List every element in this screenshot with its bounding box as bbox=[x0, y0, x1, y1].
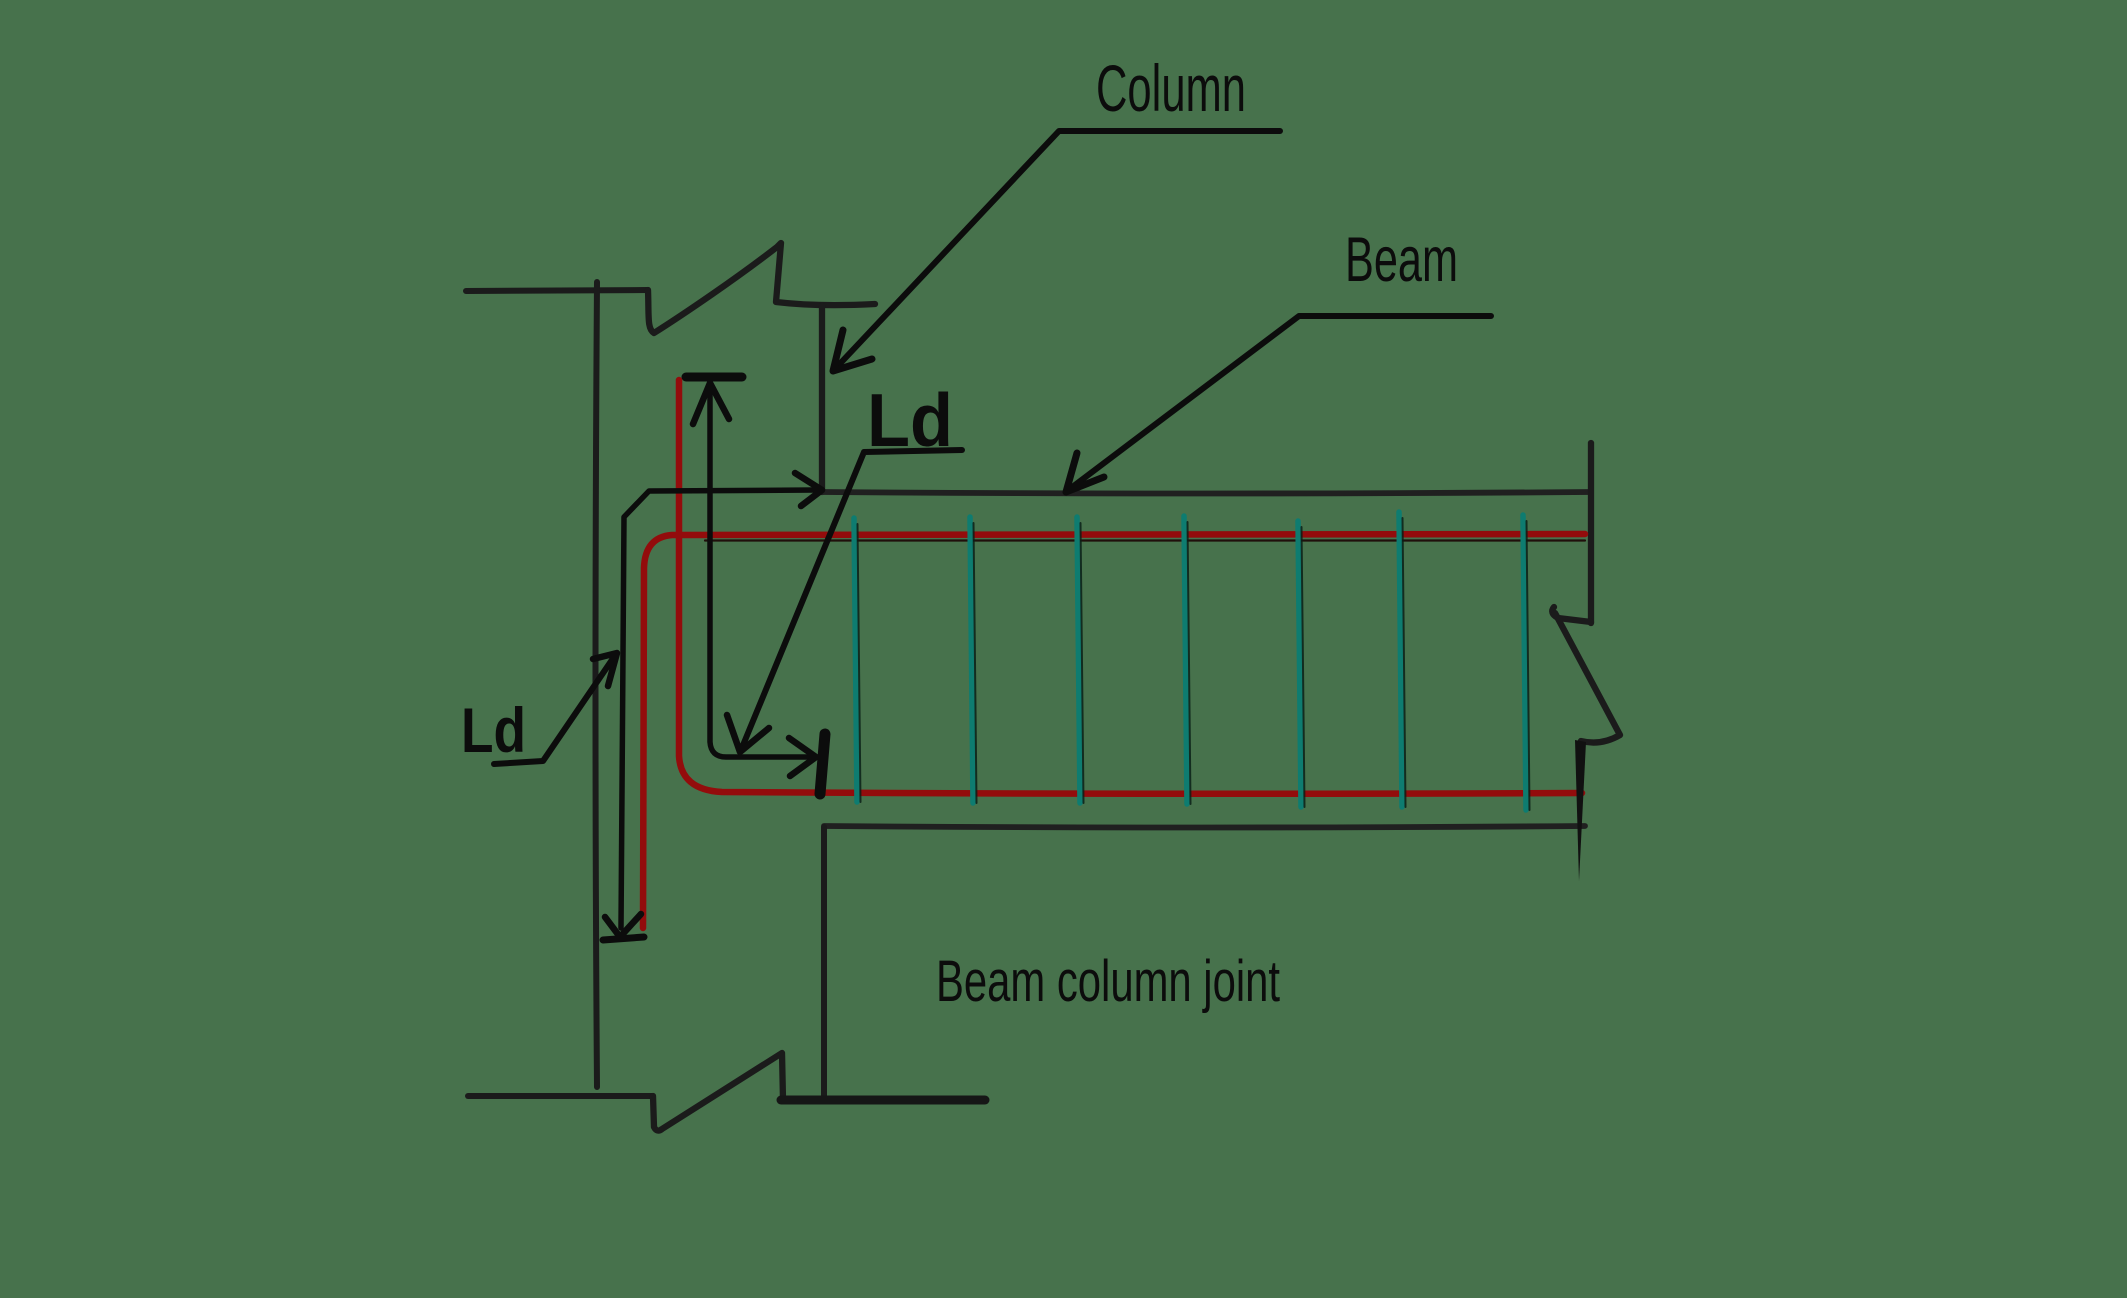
svg-text:Beam column joint: Beam column joint bbox=[936, 949, 1280, 1014]
svg-text:Ld: Ld bbox=[461, 696, 526, 766]
svg-text:Ld: Ld bbox=[867, 378, 953, 462]
dimension: vertical Ld line with elbow to column face bbox=[621, 490, 816, 928]
stirrup 2 bbox=[970, 517, 973, 803]
arrowhead right at column face (lower) bbox=[789, 738, 816, 776]
leader: Column label bbox=[834, 131, 1280, 370]
leader: right Ld label bbox=[741, 450, 962, 750]
svg-text:Column: Column bbox=[1096, 51, 1246, 125]
arrowhead up-right of left Ld leader bbox=[593, 653, 617, 686]
break symbol: beam right end tapered stroke bbox=[1575, 740, 1586, 881]
column right face upper line bbox=[819, 306, 825, 492]
arrowhead up bbox=[693, 383, 729, 424]
leader: Beam label bbox=[1067, 316, 1491, 491]
stirrup 3 bbox=[1077, 517, 1080, 803]
stirrup 7 bbox=[1523, 515, 1526, 810]
stirrup 6 bbox=[1399, 512, 1402, 807]
arrowhead of Beam leader bbox=[1066, 453, 1104, 492]
column right face lower line bbox=[821, 827, 827, 1099]
rebar: bottom bar with 90deg hook up (red) bbox=[679, 380, 1582, 794]
dimension: up arrow for hook extension bbox=[686, 373, 742, 382]
bold tick on column face bbox=[820, 734, 825, 794]
column left face line bbox=[596, 282, 598, 1087]
rebar shadow edge under top bar bbox=[705, 539, 1585, 541]
break symbol: column bottom bbox=[653, 1053, 783, 1131]
svg-text:Beam: Beam bbox=[1345, 225, 1458, 295]
beam right end vertical bbox=[1588, 443, 1594, 623]
beam top line bbox=[822, 492, 1590, 494]
break symbol: column top bbox=[648, 243, 875, 333]
wire: bottom-left slab line bbox=[468, 1093, 653, 1099]
beam bottom line bbox=[824, 826, 1585, 828]
wire: top-left slab line bbox=[466, 290, 648, 291]
leader: left Ld label bbox=[494, 654, 616, 764]
wire: bottom slab line right of column (bold) bbox=[781, 1096, 985, 1105]
stirrup 5 bbox=[1298, 521, 1301, 807]
rebar: top bar with 90deg hook down (red) bbox=[643, 534, 1585, 928]
arrowhead of Column leader bbox=[833, 330, 872, 371]
arrowhead down at bottom of Ld line bbox=[605, 914, 641, 937]
break symbol: beam right end bbox=[1552, 607, 1591, 622]
stirrup 1 bbox=[854, 518, 857, 802]
tick below down arrow bbox=[603, 937, 644, 940]
stirrup 4 bbox=[1184, 516, 1187, 804]
arrowhead down-left of right Ld leader bbox=[727, 715, 769, 752]
arrowhead right at column face bbox=[795, 473, 822, 506]
